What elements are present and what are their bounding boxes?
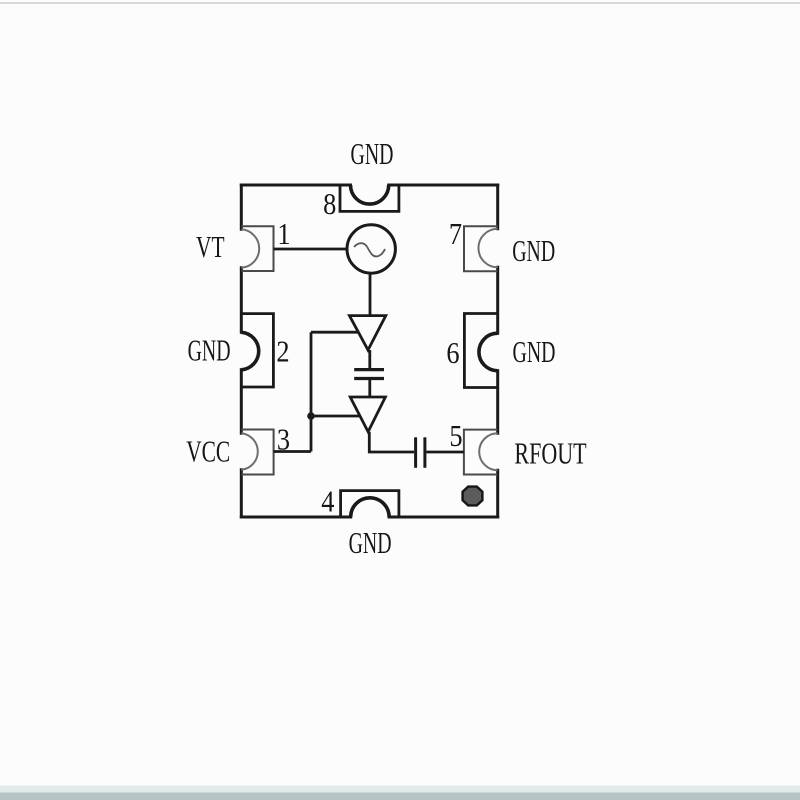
pin 5 pad	[464, 430, 498, 475]
pin 8 pad	[340, 185, 399, 211]
wire bus feed to buffer A1	[311, 331, 359, 334]
pin 4 pad	[341, 491, 399, 517]
oscillator sine wave	[354, 243, 385, 256]
pin 7 castellation arc	[478, 229, 497, 267]
left bus wire	[310, 332, 313, 451]
wire pin3 to bus	[274, 450, 311, 453]
oscillator U1	[347, 225, 395, 273]
bottom light band	[0, 786, 800, 793]
svg-text:6: 6	[446, 336, 459, 370]
pin 7 pad	[464, 226, 498, 271]
pin 8 castellation arc	[351, 185, 389, 204]
package outline bottom edge	[241, 516, 497, 519]
svg-text:GND: GND	[351, 137, 394, 172]
svg-text:3: 3	[277, 423, 290, 457]
capacitor C1 top plate	[354, 368, 384, 371]
bottom dark band	[0, 793, 800, 800]
pin 4 castellation arc	[351, 498, 389, 517]
pin 1 castellation arc	[241, 229, 259, 267]
wire pin1 to oscillator	[274, 248, 348, 251]
wire capacitor C2 to pin 5	[426, 451, 464, 454]
buffer A2	[350, 397, 385, 432]
pin 1 pad	[241, 226, 273, 271]
junction dot	[307, 412, 315, 420]
pin 5 castellation arc	[479, 433, 498, 470]
svg-text:VCC: VCC	[186, 434, 230, 469]
wire buffer A1 to capacitor C1	[368, 350, 371, 368]
svg-text:8: 8	[323, 187, 336, 221]
svg-text:GND: GND	[188, 333, 231, 368]
svg-text:2: 2	[276, 335, 289, 369]
capacitor C2 right plate	[423, 437, 426, 468]
pin 2 pad	[241, 314, 273, 387]
pin 6 castellation arc	[479, 333, 498, 371]
wire capacitor C1 to buffer A2	[368, 379, 371, 398]
svg-text:7: 7	[449, 217, 462, 251]
pin 6 pad	[464, 314, 497, 388]
wire buffer A2 to output node	[369, 432, 414, 452]
svg-text:VT: VT	[196, 229, 225, 264]
svg-text:5: 5	[449, 419, 462, 453]
wire oscillator to buffer A1	[369, 273, 372, 316]
buffer A1	[349, 316, 385, 350]
package outline top edge	[241, 184, 497, 187]
pin 3 pad	[241, 430, 273, 475]
capacitor C2 left plate	[414, 437, 417, 468]
svg-text:4: 4	[321, 485, 334, 519]
pin 1 orientation dot	[463, 487, 483, 506]
package outline left edge	[240, 185, 243, 517]
svg-text:GND: GND	[512, 234, 555, 269]
pin 3 castellation arc	[241, 433, 257, 470]
pin 2 castellation arc	[241, 332, 258, 370]
wire bus feed to buffer A2	[311, 415, 360, 418]
svg-text:RFOUT: RFOUT	[514, 436, 586, 471]
top border line	[0, 2, 800, 4]
capacitor C1 bottom plate	[354, 377, 384, 380]
svg-text:1: 1	[277, 217, 290, 251]
package outline right edge	[496, 185, 499, 517]
svg-text:GND: GND	[349, 526, 392, 561]
svg-text:GND: GND	[513, 335, 556, 370]
